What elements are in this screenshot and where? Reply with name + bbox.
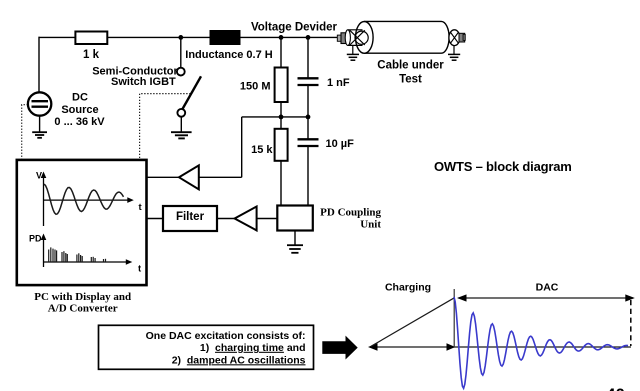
wire: filter to A2	[217, 218, 235, 220]
wire: cable left ground lead	[352, 45, 354, 54]
plot: PD axes	[29, 234, 142, 275]
svg-text:Unit: Unit	[360, 218, 381, 230]
svg-text:40: 40	[606, 385, 625, 391]
svg-text:DAC: DAC	[536, 282, 559, 294]
svg-text:0 ... 36 kV: 0 ... 36 kV	[54, 116, 105, 128]
svg-text:Inductance 0.7 H: Inductance 0.7 H	[185, 49, 272, 61]
ground: dc source	[32, 132, 47, 138]
marker: t0 vertical	[453, 289, 455, 347]
dac span arrow	[457, 294, 635, 301]
svg-text:Cable under: Cable under	[377, 59, 444, 71]
wire: A2 to pd unit	[257, 218, 278, 220]
wire: pd unit to ground	[294, 231, 296, 245]
ground: cable right	[448, 54, 460, 60]
control line: PC to dc source (dotted)	[22, 105, 28, 160]
svg-text:Charging: Charging	[385, 282, 431, 294]
wire: divider right branch upper	[307, 37, 309, 78]
charging ramp	[371, 298, 454, 347]
svg-text:One DAC excitation consists of: One DAC excitation consists of:	[146, 330, 306, 342]
svg-text:10 µF: 10 µF	[326, 138, 355, 150]
svg-text:PC with Display and: PC with Display and	[34, 291, 131, 303]
wire: left vertical to DC source	[38, 37, 40, 92]
resistor R2 150M	[240, 68, 288, 103]
svg-text:OWTS – block diagram: OWTS – block diagram	[434, 159, 572, 174]
waveform: damped AC oscillation (blue)	[454, 297, 628, 388]
svg-text:15 k: 15 k	[251, 144, 273, 156]
switch upper contact	[177, 68, 185, 76]
amplifier A1	[179, 165, 199, 189]
plot: V axes	[36, 170, 143, 226]
pd coupling unit box	[277, 206, 381, 231]
amplifier A2	[235, 207, 257, 231]
node: divider mid right	[306, 115, 311, 120]
wire: A1 input	[199, 176, 242, 178]
svg-text:DC: DC	[72, 91, 88, 103]
filter box	[163, 206, 217, 231]
svg-text:V: V	[36, 170, 42, 180]
node: divider mid left	[279, 115, 284, 120]
wire: dc source to ground	[39, 116, 41, 132]
inductor L1 0.7H	[185, 30, 272, 61]
ground: switch	[171, 132, 192, 138]
wire: divider mid link	[242, 116, 308, 118]
svg-text:PD: PD	[29, 234, 42, 244]
svg-text:Switch IGBT: Switch IGBT	[111, 76, 176, 88]
wire: PC to filter	[147, 218, 164, 220]
resistor R1 1k	[75, 32, 107, 62]
svg-text:Filter: Filter	[176, 211, 205, 223]
block arrow	[322, 336, 357, 360]
dashed marker: end of DAC	[630, 300, 632, 346]
resistor R3 15k	[251, 129, 288, 161]
switch blade	[182, 76, 201, 109]
svg-text:1) charging time and: 1) charging time and	[200, 342, 306, 354]
pc box	[17, 160, 147, 285]
wire: main HV bus	[39, 36, 342, 38]
ground: pd unit	[287, 245, 303, 253]
axis: bottom time axis	[368, 343, 631, 351]
switch lower contact	[177, 109, 185, 117]
wire: switch branch	[180, 37, 182, 67]
cable under test	[337, 21, 465, 85]
label: pc caption	[34, 291, 131, 315]
wire: between caps	[307, 85, 309, 139]
plot: PD pulse bars	[49, 247, 106, 262]
node: switch tap	[178, 35, 183, 40]
svg-text:1 k: 1 k	[83, 49, 100, 61]
svg-text:Voltage Devider: Voltage Devider	[251, 22, 338, 34]
svg-text:150 M: 150 M	[240, 81, 271, 93]
svg-text:1 nF: 1 nF	[327, 77, 350, 89]
svg-text:Test: Test	[399, 73, 422, 85]
capacitor C1 1nF	[298, 77, 350, 89]
wire: cable right ground lead	[453, 46, 455, 55]
control line: PC to switch (dotted)	[140, 94, 191, 160]
node: divider right	[306, 35, 311, 40]
svg-text:A/D Converter: A/D Converter	[48, 302, 118, 314]
waveform: damped V oscillation	[44, 184, 124, 214]
svg-text:PD Coupling: PD Coupling	[320, 206, 381, 218]
wire: A1 output to PC	[147, 176, 180, 178]
wire: 10uF to pd unit	[307, 146, 309, 206]
svg-text:Source: Source	[61, 104, 98, 116]
label: semiconductor switch	[92, 65, 178, 88]
ground: cable left	[347, 54, 359, 60]
wire: divider left branch upper	[280, 37, 282, 67]
node: divider left	[279, 35, 284, 40]
wire: switch to ground	[180, 117, 182, 132]
wire: between 150M and 15k	[280, 102, 282, 129]
label: dc source	[54, 91, 105, 128]
capacitor C2 10uF	[298, 138, 355, 150]
svg-text:2) damped AC oscillations: 2) damped AC oscillations	[172, 354, 306, 366]
wire: A1 input riser	[241, 117, 243, 177]
dc source V1	[28, 92, 51, 115]
callout box: DAC excitation	[99, 325, 314, 369]
wire: 15k to pd unit	[280, 161, 282, 206]
